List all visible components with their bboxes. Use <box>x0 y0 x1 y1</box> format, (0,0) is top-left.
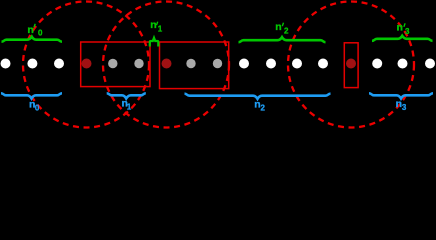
svg-text:n: n <box>397 21 403 33</box>
dashed circle around dot at x=166 <box>103 2 229 128</box>
svg-text:1: 1 <box>158 25 163 34</box>
green overbrace n'2 <box>239 37 326 42</box>
rectangle block 1 <box>81 42 150 87</box>
blue underbrace n3 <box>369 93 433 98</box>
dashed circle around dot at x=86 <box>23 2 149 128</box>
blue underbrace n2 <box>185 94 331 99</box>
dot 6 gray <box>134 59 143 68</box>
dot 16 white <box>398 59 408 69</box>
dashed circle around dot at x=351 <box>288 2 414 128</box>
dot 17 white <box>425 59 435 69</box>
dot 7 dark red <box>162 59 172 69</box>
svg-text:3: 3 <box>405 27 410 36</box>
green overbrace n'0 <box>2 37 63 42</box>
dot 13 white <box>318 59 328 69</box>
dot 2 white <box>27 59 37 69</box>
svg-text:n: n <box>150 19 156 31</box>
blue underbrace n0 <box>1 93 62 98</box>
dot 1 white <box>1 59 11 69</box>
green overbrace n'1 (narrow) <box>150 38 159 47</box>
dot 12 white <box>292 59 302 69</box>
green overbrace n'3 <box>372 36 433 41</box>
dot 5 gray <box>108 59 117 68</box>
svg-text:0: 0 <box>38 28 43 37</box>
svg-text:2: 2 <box>284 27 289 36</box>
svg-text:1: 1 <box>127 103 132 112</box>
rectangle block 3 (small) <box>344 43 358 88</box>
dot 3 white <box>54 59 64 69</box>
rectangle block 2 <box>160 42 229 89</box>
dot 8 gray <box>186 59 195 68</box>
dot 4 dark red <box>82 59 92 69</box>
svg-text:n: n <box>27 24 33 36</box>
blue underbrace n1 <box>107 93 146 98</box>
svg-text:2: 2 <box>261 104 266 113</box>
svg-text:n: n <box>275 21 281 33</box>
dot 10 white <box>239 59 249 69</box>
dot 14 dark red <box>346 59 356 69</box>
dot 9 gray <box>213 59 222 68</box>
dot 11 white <box>266 59 276 69</box>
svg-text:0: 0 <box>35 104 40 113</box>
dot 15 white <box>372 59 382 69</box>
svg-text:3: 3 <box>402 103 407 112</box>
